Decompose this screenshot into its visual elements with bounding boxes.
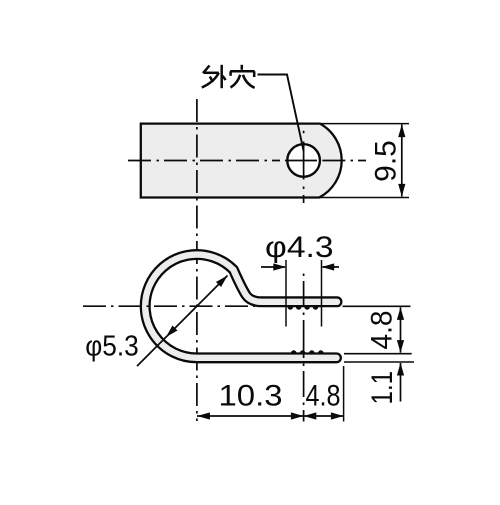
serration marks on top tab bbox=[288, 307, 319, 310]
horizontal centerline top view bbox=[128, 160, 366, 162]
svg-text:1.1: 1.1 bbox=[366, 371, 399, 405]
vertical centerline through loop axis bbox=[196, 99, 198, 421]
svg-text:10.3: 10.3 bbox=[219, 379, 283, 412]
svg-text:9.5: 9.5 bbox=[370, 140, 403, 182]
hole vertical centerline (top view) bbox=[303, 131, 305, 203]
phi4.3 extension lines bbox=[285, 260, 287, 327]
svg-text:φ5.3: φ5.3 bbox=[85, 330, 139, 362]
serration marks on bottom tab bbox=[291, 350, 324, 353]
phi5.3 diagonal diameter arrow bbox=[137, 276, 228, 367]
leader line from label to hole bbox=[258, 75, 304, 152]
svg-text:4.8: 4.8 bbox=[365, 311, 398, 350]
svg-text:φ4.3: φ4.3 bbox=[265, 231, 334, 264]
phi4.3 dimension arrows bbox=[261, 266, 285, 268]
top view tab outline bbox=[141, 124, 342, 198]
extension line at top tab tip (for 4.8 bottom dim) bbox=[343, 366, 345, 422]
mounting hole bbox=[287, 144, 320, 177]
extension line of bottom tab upper surface bbox=[344, 353, 412, 355]
bottom dimension line 10.3 / 4.8 bbox=[197, 415, 344, 417]
extension line of top tab lower surface bbox=[343, 305, 411, 307]
4.8 vertical dimension (right side) bbox=[400, 307, 402, 352]
9.5 extension lines bbox=[321, 123, 409, 125]
P-clip strip profile (side view) bbox=[145, 255, 337, 358]
extension line of bottom tab lower surface bbox=[344, 361, 414, 363]
svg-text:4.8: 4.8 bbox=[306, 379, 341, 412]
horizontal centerline bottom view bbox=[83, 305, 255, 307]
1.1 vertical dimension (right side) bbox=[400, 363, 402, 402]
9.5 dimension line with arrows bbox=[401, 125, 403, 197]
label 外穴 (hand-drawn kanji) bbox=[202, 65, 255, 88]
hole centerline (bottom view, vertical) bbox=[303, 274, 305, 422]
